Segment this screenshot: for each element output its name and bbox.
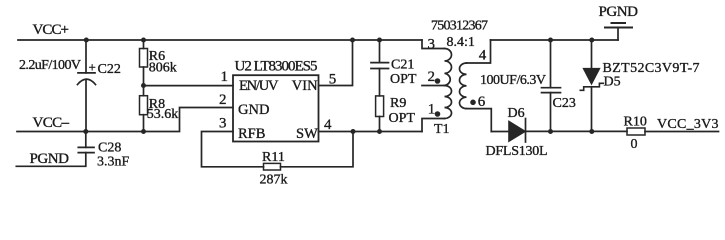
diode D5 zener xyxy=(580,40,603,132)
capacitor C21 xyxy=(371,40,389,96)
transformer T1 pin1 phasing dot xyxy=(435,111,441,117)
wire output VCC_3V3 xyxy=(645,131,719,133)
wire secondary pin4 lead xyxy=(467,40,491,63)
svg-text:T1: T1 xyxy=(434,122,450,137)
svg-text:806k: 806k xyxy=(149,60,177,75)
transformer T1 primary winding xyxy=(445,49,452,119)
transformer T1 secondary winding xyxy=(459,63,466,109)
svg-text:3.3nF: 3.3nF xyxy=(97,154,130,169)
resistor R9 xyxy=(376,96,384,132)
wire divider node to EN/UV pin1 xyxy=(144,85,234,87)
transformer T1 pin2 phasing dot xyxy=(435,78,441,84)
svg-text:OPT: OPT xyxy=(389,111,416,126)
svg-text:2.2uF/100V: 2.2uF/100V xyxy=(19,58,81,73)
svg-text:0: 0 xyxy=(631,137,638,152)
svg-text:D6: D6 xyxy=(508,106,525,121)
resistor R11 xyxy=(264,163,281,170)
wire secondary bottom rail xyxy=(491,131,508,133)
svg-text:PGND: PGND xyxy=(599,4,639,20)
svg-text:4: 4 xyxy=(324,117,332,133)
svg-text:8.4:1: 8.4:1 xyxy=(447,35,475,50)
svg-text:U2 LT8300ES5: U2 LT8300ES5 xyxy=(235,58,318,74)
node VCC+/C22 junction xyxy=(84,38,89,43)
svg-text:R9: R9 xyxy=(390,96,406,111)
wire RFB pin3 loop left xyxy=(202,132,264,167)
svg-text:1: 1 xyxy=(428,102,436,118)
node R6-R8 divider junction xyxy=(141,83,146,88)
wire PGND top rail xyxy=(491,39,619,41)
svg-text:2: 2 xyxy=(219,92,227,108)
wire VCC- to GND pin2 xyxy=(180,108,234,132)
svg-text:VCC–: VCC– xyxy=(33,115,70,131)
wire primary pin1 lead step xyxy=(422,119,445,132)
wire VCC+ rail xyxy=(18,39,422,41)
svg-text:OPT: OPT xyxy=(390,72,417,87)
svg-text:VCC_3V3: VCC_3V3 xyxy=(657,117,719,132)
svg-text:3: 3 xyxy=(219,115,227,131)
svg-text:3: 3 xyxy=(428,37,436,53)
node rail/D5 bottom junction xyxy=(589,129,594,134)
svg-text:RFB: RFB xyxy=(238,126,265,142)
svg-text:+: + xyxy=(89,60,96,75)
svg-text:VCC+: VCC+ xyxy=(33,22,70,38)
diode D6 xyxy=(509,119,627,143)
svg-text:C21: C21 xyxy=(391,57,414,72)
svg-text:C22: C22 xyxy=(98,62,121,77)
node VCC+/C21 junction xyxy=(377,38,382,43)
capacitor C22 xyxy=(78,40,96,132)
node VCC-/R8 junction xyxy=(141,129,146,134)
node rail/C23 bottom junction xyxy=(548,129,553,134)
svg-text:6: 6 xyxy=(478,94,486,110)
wire secondary pin6 lead xyxy=(467,109,492,132)
node VCC+/R6 junction xyxy=(141,38,146,43)
svg-text:287k: 287k xyxy=(260,172,288,187)
capacitor C28 xyxy=(16,132,94,167)
wire primary pin3 lead step xyxy=(422,40,445,49)
svg-text:53.6k: 53.6k xyxy=(147,107,179,122)
node SW/R9 junction xyxy=(377,129,382,134)
svg-text:5: 5 xyxy=(329,72,337,88)
svg-text:750312367: 750312367 xyxy=(431,19,488,34)
svg-text:4: 4 xyxy=(479,48,487,64)
svg-text:SW: SW xyxy=(296,126,318,142)
resistor R8 xyxy=(140,96,148,132)
ground PGND symbol xyxy=(605,23,632,40)
svg-text:C23: C23 xyxy=(553,96,576,111)
wire VIN pin5 to VCC+ xyxy=(319,40,353,86)
transformer T1 pin2 stub xyxy=(422,85,445,87)
svg-text:PGND: PGND xyxy=(30,151,70,167)
wire SW pin4 rail xyxy=(319,131,423,133)
svg-text:DFLS130L: DFLS130L xyxy=(486,144,548,159)
svg-text:GND: GND xyxy=(238,102,269,118)
op-amp U2 IC body xyxy=(233,75,319,141)
svg-text:1: 1 xyxy=(221,69,229,85)
svg-text:2: 2 xyxy=(428,69,436,85)
svg-text:VIN: VIN xyxy=(292,78,318,94)
svg-text:D5: D5 xyxy=(604,75,621,90)
wire VCC- rail xyxy=(17,131,178,133)
svg-text:100UF/6.3V: 100UF/6.3V xyxy=(480,73,546,88)
transformer T1 pin6 phasing dot xyxy=(470,100,476,106)
wire R11 to SW node xyxy=(281,132,354,167)
node VCC-/C22-C28 junction xyxy=(83,129,88,134)
svg-text:R10: R10 xyxy=(624,114,647,129)
node R11/SW junction xyxy=(351,129,356,134)
svg-text:EN/UV: EN/UV xyxy=(239,78,279,94)
resistor R10 xyxy=(627,128,645,135)
node rail/C23 top junction xyxy=(548,38,553,43)
node VCC+/VIN junction xyxy=(350,38,355,43)
node rail/D5 top junction xyxy=(589,38,594,43)
capacitor C23 xyxy=(542,40,561,132)
resistor R6 xyxy=(140,40,148,96)
svg-text:R11: R11 xyxy=(262,150,285,165)
